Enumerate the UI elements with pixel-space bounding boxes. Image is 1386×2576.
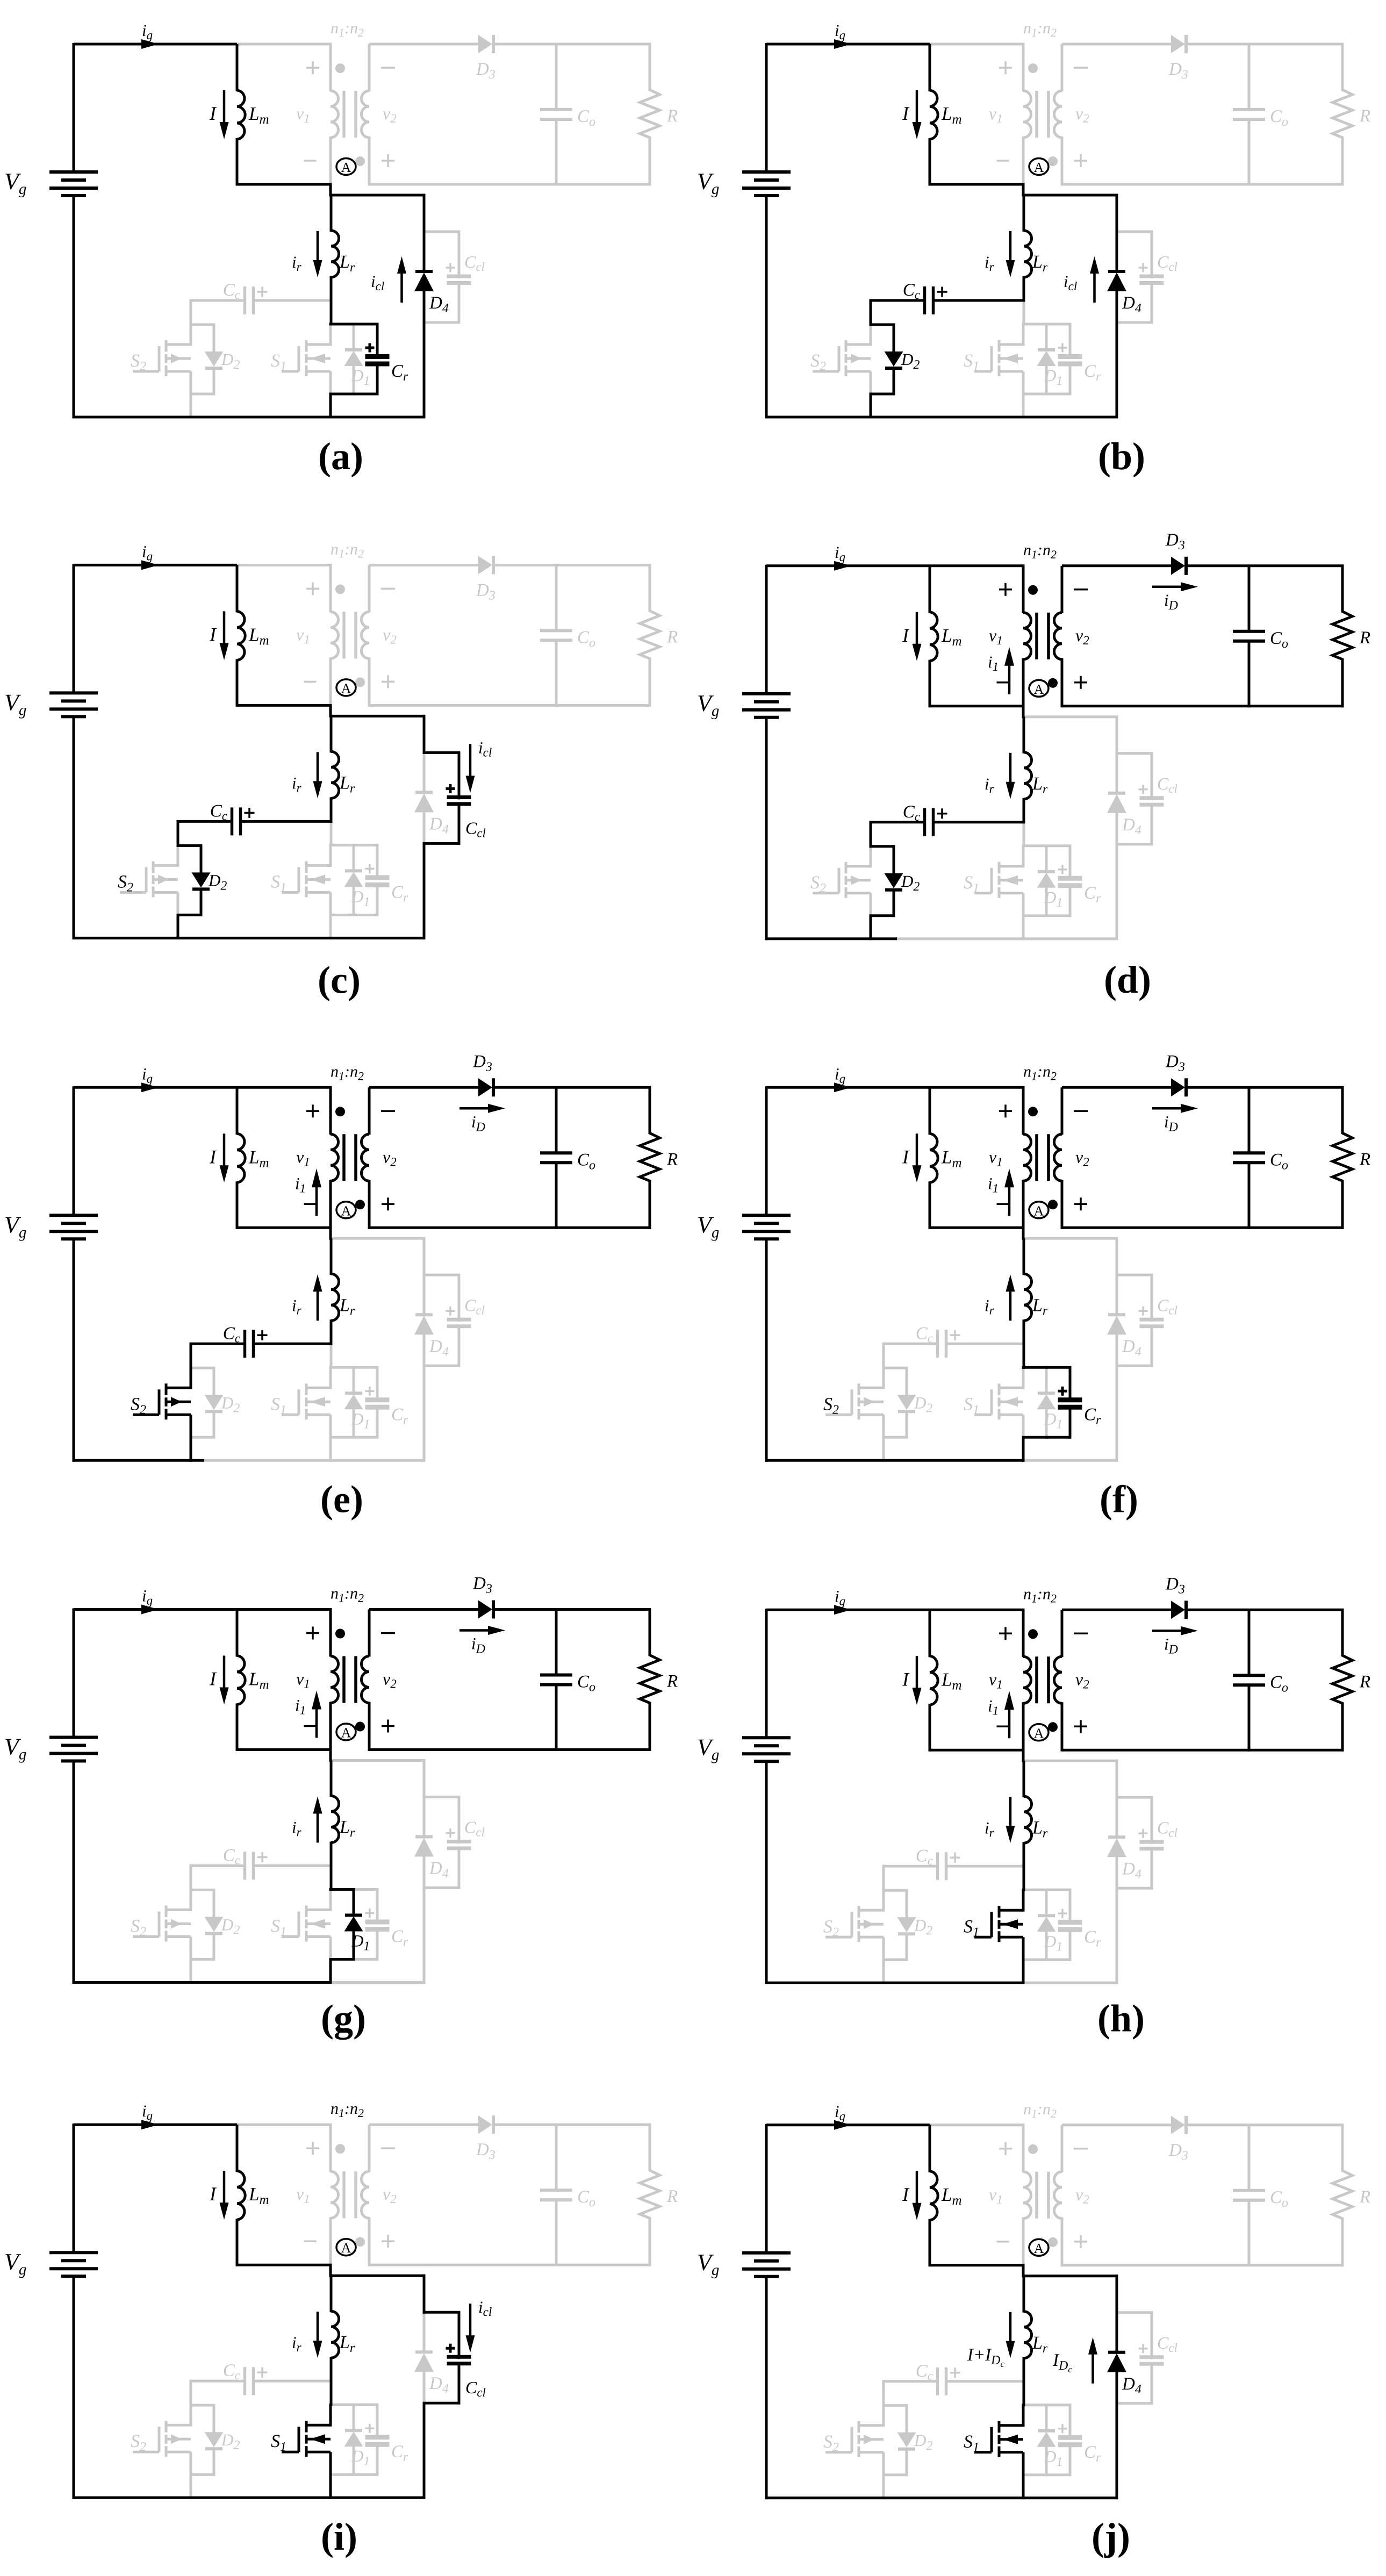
current arrow icl bbox=[400, 271, 403, 303]
svg-text:Lm: Lm bbox=[248, 1146, 269, 1170]
diode D3 bbox=[478, 1078, 492, 1096]
capacitor Cc wire left bbox=[871, 299, 925, 302]
capacitor Cr branch top bbox=[354, 844, 379, 846]
diode D4 wire below bbox=[1116, 1857, 1118, 1890]
wire secondary top bbox=[369, 2123, 478, 2126]
diode D4 wire below bbox=[423, 1857, 426, 1890]
label v1 plus bbox=[306, 67, 319, 69]
transistor S1 bbox=[306, 864, 331, 867]
label Cc plus bbox=[950, 1857, 960, 1859]
resistor R bbox=[1341, 2125, 1344, 2172]
svg-text:D2: D2 bbox=[914, 2431, 932, 2453]
wire Cc down to switch rail bbox=[190, 1343, 192, 1369]
label v1 minus bbox=[304, 2240, 317, 2242]
transistor S1 drain lead bbox=[329, 323, 332, 346]
label v2 minus bbox=[381, 67, 395, 69]
resistor R bbox=[1341, 1610, 1344, 1656]
capacitor Cc wire right bbox=[947, 1865, 1024, 1868]
diode D2 branch top bbox=[190, 1889, 216, 1891]
svg-text:Ccl: Ccl bbox=[1157, 1818, 1177, 1839]
wire D3 to load bbox=[493, 1608, 651, 1611]
svg-text:n1:n2: n1:n2 bbox=[331, 19, 364, 39]
capacitor Cc wire right bbox=[947, 2380, 1024, 2383]
node A marker bbox=[1029, 680, 1049, 697]
wire bottom rail bbox=[765, 937, 897, 940]
wire S2 source to rail bbox=[190, 1960, 192, 1984]
diode D4 bbox=[415, 1835, 433, 1839]
svg-text:v1: v1 bbox=[989, 1669, 1003, 1691]
svg-text:S2: S2 bbox=[131, 1917, 146, 1939]
svg-text:ig: ig bbox=[835, 21, 845, 42]
diode D1 branch bottom bbox=[1045, 888, 1048, 917]
current arrow I bbox=[916, 1656, 918, 1690]
capacitor Cr branch bottom bbox=[1069, 1407, 1072, 1439]
transistor S1 drain lead bbox=[1022, 323, 1025, 346]
current arrow iD bbox=[459, 1629, 490, 1632]
wire bottom rail bbox=[73, 2496, 426, 2499]
label Ccl plus bbox=[1139, 2348, 1148, 2350]
capacitor Ccl branch top bbox=[423, 1274, 461, 1276]
wire Lr to switch node bbox=[330, 2381, 333, 2406]
resistor R bbox=[649, 1087, 651, 1134]
svg-text:D1: D1 bbox=[351, 366, 370, 388]
wire top-left bbox=[74, 1086, 237, 1089]
resistor R bbox=[1341, 566, 1344, 613]
wire to D1 top bbox=[329, 323, 355, 326]
svg-text:ir: ir bbox=[985, 1296, 995, 1317]
diode D1 branch bottom bbox=[1045, 1409, 1048, 1439]
wire Lr to switch node bbox=[1023, 1344, 1025, 1369]
inductor Lr bbox=[1023, 717, 1025, 754]
wire top-left bbox=[74, 564, 237, 566]
wire Lm bottom to node A bbox=[930, 2264, 1025, 2266]
current arrow ir bbox=[317, 1289, 319, 1321]
capacitor Cc wire right bbox=[255, 1864, 331, 1867]
transistor S2 source lead bbox=[882, 1415, 885, 1439]
wire Cc down to switch rail bbox=[190, 1864, 192, 1891]
label Cc plus bbox=[950, 1334, 960, 1337]
wire Lm bottom to node A bbox=[237, 1748, 332, 1751]
capacitor Cc wire right bbox=[935, 821, 1024, 823]
svg-text:Vg: Vg bbox=[4, 689, 26, 719]
label Ccl plus bbox=[446, 267, 455, 269]
wire secondary top bbox=[1062, 564, 1171, 567]
wire top-left bbox=[766, 2123, 930, 2126]
diode D4 branch wire bottom bbox=[1116, 1366, 1118, 1462]
wire node A to clamp branch bbox=[1023, 715, 1118, 718]
wire Lr to switch node bbox=[1023, 822, 1025, 848]
diode D4 branch wire bottom bbox=[1116, 844, 1118, 941]
wire secondary bottom bbox=[1062, 705, 1344, 707]
svg-text:n1:n2: n1:n2 bbox=[331, 2100, 364, 2120]
wire secondary bottom bbox=[1062, 183, 1344, 186]
wire S1 source to rail bbox=[329, 1960, 332, 1984]
svg-text:D4: D4 bbox=[429, 2374, 449, 2396]
svg-text:A: A bbox=[341, 1725, 351, 1741]
transistor S2 drain lead bbox=[190, 325, 192, 346]
wire top-left bbox=[766, 1609, 930, 1611]
transformer primary winding v1 bbox=[1022, 1610, 1025, 1657]
label v1 plus bbox=[999, 589, 1012, 591]
diode D2 branch bottom bbox=[213, 2448, 216, 2476]
label Ccl plus bbox=[446, 1832, 455, 1834]
svg-text:v2: v2 bbox=[1075, 104, 1089, 125]
capacitor Ccl branch bottom bbox=[458, 2363, 461, 2405]
svg-text:v1: v1 bbox=[296, 2184, 310, 2206]
transformer core bbox=[1035, 2172, 1038, 2219]
transistor S2 source lead bbox=[190, 1415, 192, 1439]
label v1 plus bbox=[999, 1110, 1012, 1113]
svg-text:R: R bbox=[666, 2187, 678, 2206]
wire to D1 top bbox=[1022, 844, 1048, 847]
svg-text:Co: Co bbox=[1270, 1150, 1288, 1172]
capacitor Ccl bbox=[447, 2355, 471, 2359]
diode D1 bbox=[345, 1914, 362, 1917]
current arrow ig bbox=[834, 2120, 851, 2130]
diode D4 wire above bbox=[1116, 2313, 1118, 2353]
svg-text:S2: S2 bbox=[823, 2432, 839, 2455]
current arrow icl bbox=[469, 744, 472, 778]
transistor S2 bbox=[859, 1387, 884, 1389]
svg-text:v2: v2 bbox=[1075, 2185, 1089, 2206]
svg-text:v2: v2 bbox=[383, 2184, 397, 2206]
battery Vg bbox=[742, 692, 791, 695]
svg-text:A: A bbox=[1034, 681, 1044, 697]
inductor Lr bbox=[330, 716, 333, 752]
transistor S2 drain lead bbox=[870, 325, 872, 346]
wire to D1 bottom bbox=[1022, 914, 1048, 917]
wire left rail bottom bbox=[73, 2276, 75, 2499]
label v2 minus bbox=[1074, 1633, 1088, 1635]
svg-text:n1:n2: n1:n2 bbox=[1023, 1585, 1057, 1605]
label v1 plus bbox=[999, 1633, 1012, 1635]
wire node A to clamp branch bbox=[331, 194, 426, 197]
transistor S1 source lead bbox=[1022, 893, 1025, 917]
svg-text:Vg: Vg bbox=[697, 690, 719, 720]
wire Cc down to switch rail bbox=[882, 1343, 885, 1369]
wire node A to clamp branch bbox=[331, 2274, 426, 2277]
capacitor Ccl branch top bbox=[1116, 1796, 1153, 1799]
capacitor Ccl bbox=[1140, 796, 1164, 800]
svg-text:D2: D2 bbox=[221, 350, 240, 372]
wire bottom rail bbox=[765, 416, 1118, 419]
svg-text:Lm: Lm bbox=[248, 103, 269, 127]
svg-text:R: R bbox=[1359, 1150, 1370, 1169]
capacitor Cc bbox=[936, 1330, 939, 1358]
transistor S1 source lead bbox=[329, 2452, 332, 2476]
transistor S2 drain lead bbox=[870, 846, 872, 868]
svg-text:(i): (i) bbox=[321, 2515, 357, 2558]
capacitor Ccl bbox=[447, 1840, 471, 1843]
inductor Lr bbox=[1023, 2276, 1025, 2313]
wire top-mid to primary bbox=[930, 43, 1025, 46]
transistor S1 drain lead bbox=[1022, 2404, 1025, 2427]
wire Lm bottom to node A bbox=[237, 704, 332, 707]
wire node jog bbox=[1022, 706, 1025, 719]
wire D3 to load bbox=[493, 564, 651, 566]
current arrow iD bbox=[1152, 1630, 1183, 1632]
diode D4 branch wire bottom bbox=[1116, 2403, 1118, 2500]
diode D2 branch bottom bbox=[213, 1933, 216, 1961]
diode D1 branch top bbox=[1045, 324, 1048, 351]
transformer core bbox=[342, 1656, 346, 1703]
capacitor Cr branch bottom bbox=[1069, 2445, 1072, 2477]
inductor Lm bbox=[929, 1610, 931, 1657]
svg-text:I: I bbox=[209, 1146, 217, 1167]
wire to D1 top bbox=[1022, 1889, 1048, 1891]
current arrow i1 bbox=[1008, 1185, 1011, 1216]
svg-text:Cc: Cc bbox=[903, 281, 920, 302]
svg-text:S2: S2 bbox=[118, 872, 133, 894]
node A marker bbox=[336, 159, 356, 175]
svg-text:i1: i1 bbox=[988, 1174, 999, 1195]
diode D4 wire above bbox=[1116, 1797, 1118, 1838]
diode D1 branch top bbox=[1045, 1367, 1048, 1394]
capacitor Cr branch top bbox=[1046, 323, 1072, 326]
wire top-mid to primary bbox=[237, 564, 332, 566]
svg-text:ig: ig bbox=[835, 543, 845, 564]
resistor R bbox=[649, 565, 651, 612]
wire left rail top bbox=[73, 43, 75, 173]
svg-text:D1: D1 bbox=[1044, 888, 1062, 910]
label v1 minus bbox=[997, 681, 1009, 684]
node A marker bbox=[1029, 2239, 1049, 2256]
svg-text:v2: v2 bbox=[383, 1669, 397, 1691]
wire to D1 bottom bbox=[329, 393, 355, 396]
diode D4 bbox=[1108, 1835, 1125, 1839]
wire node jog bbox=[329, 705, 332, 717]
svg-text:(g): (g) bbox=[321, 1997, 366, 2040]
diode D2 branch top bbox=[190, 324, 216, 326]
svg-text:R: R bbox=[1359, 106, 1370, 126]
diode D2 branch bottom bbox=[893, 889, 895, 917]
wire to D1 bottom bbox=[1022, 1436, 1048, 1439]
diode D2 branch top bbox=[190, 2404, 216, 2407]
capacitor Cc wire right bbox=[242, 820, 331, 823]
capacitor Ccl bbox=[1140, 275, 1164, 278]
resistor R bbox=[1341, 44, 1344, 91]
wire D3 to load bbox=[1186, 2123, 1344, 2126]
diode D2 branch bottom bbox=[893, 368, 895, 396]
label Ccl plus bbox=[1139, 267, 1148, 269]
diode D2 bbox=[897, 1917, 916, 1932]
svg-text:iD: iD bbox=[471, 1634, 485, 1656]
svg-text:R: R bbox=[666, 1150, 678, 1169]
svg-text:Cr: Cr bbox=[391, 2442, 408, 2464]
svg-text:n1:n2: n1:n2 bbox=[331, 1063, 364, 1082]
current arrow I bbox=[223, 611, 226, 645]
resistor R bbox=[649, 2125, 651, 2171]
wire S2 source to rail bbox=[882, 1437, 885, 1462]
wire left rail top bbox=[765, 1609, 768, 1739]
diode D4 wire above bbox=[423, 1797, 426, 1838]
wire left rail top bbox=[73, 1609, 75, 1739]
capacitor Ccl branch top bbox=[423, 1796, 461, 1798]
transistor S2 source lead bbox=[190, 2452, 192, 2476]
wire left rail bottom bbox=[765, 1239, 768, 1462]
svg-text:S2: S2 bbox=[810, 351, 826, 374]
label v2 plus bbox=[382, 2240, 394, 2242]
battery Vg bbox=[742, 1736, 791, 1739]
wire bottom rail bbox=[73, 416, 426, 419]
wire left rail top bbox=[765, 565, 768, 695]
label Cc plus bbox=[257, 2371, 268, 2373]
label v2 minus bbox=[381, 1632, 395, 1634]
inductor Lm bbox=[236, 1087, 239, 1135]
wire left rail bottom bbox=[73, 1239, 75, 1462]
label v1 minus bbox=[997, 2241, 1009, 2243]
svg-text:D3: D3 bbox=[1168, 2141, 1188, 2163]
battery Vg bbox=[49, 2251, 98, 2254]
transistor S2 drain lead bbox=[190, 1890, 192, 1912]
current arrow I bbox=[223, 90, 226, 124]
current arrow ig bbox=[834, 1082, 851, 1092]
wire left rail top bbox=[765, 1086, 768, 1216]
svg-text:ir: ir bbox=[985, 253, 995, 274]
label Ccl plus bbox=[1139, 1833, 1148, 1835]
diode D4 wire above bbox=[423, 752, 426, 793]
wire left rail bottom bbox=[765, 196, 768, 419]
svg-text:D4: D4 bbox=[1122, 1337, 1141, 1359]
wire S2 source to rail bbox=[882, 1960, 885, 1984]
capacitor Cc bbox=[936, 1852, 939, 1880]
capacitor Ccl branch bottom bbox=[458, 1326, 461, 1367]
label v2 plus bbox=[382, 1725, 394, 1727]
label v1 minus bbox=[304, 1725, 317, 1727]
svg-text:D3: D3 bbox=[1165, 1574, 1185, 1596]
label v1 minus bbox=[304, 681, 317, 683]
label v2 minus bbox=[1074, 2148, 1088, 2150]
transistor S1 bbox=[999, 343, 1023, 346]
capacitor Cr branch top bbox=[354, 2403, 379, 2406]
wire S2 source to rail bbox=[870, 394, 872, 419]
capacitor Cr branch bottom bbox=[376, 364, 379, 396]
capacitor Ccl bbox=[1140, 2355, 1164, 2359]
wire Lr to switch node bbox=[330, 1344, 333, 1369]
diode D4 wire below bbox=[423, 812, 426, 845]
diode D4 wire below bbox=[1116, 291, 1118, 324]
current arrow i1 bbox=[315, 1185, 318, 1216]
battery Vg bbox=[49, 170, 98, 174]
node A marker bbox=[1029, 159, 1049, 175]
svg-text:(c): (c) bbox=[318, 958, 361, 1001]
svg-text:S2: S2 bbox=[131, 2431, 146, 2454]
capacitor Cc wire right bbox=[255, 1343, 331, 1345]
wire Cc down to switch rail bbox=[870, 299, 872, 326]
capacitor Cc wire left bbox=[191, 299, 246, 302]
wire S2 source to rail bbox=[177, 915, 179, 939]
capacitor Cc wire left bbox=[884, 1865, 938, 1868]
wire Lm bottom to node A bbox=[930, 1749, 1025, 1752]
svg-text:A: A bbox=[1034, 160, 1044, 175]
svg-text:Lr: Lr bbox=[339, 1295, 355, 1318]
wire top-mid to primary bbox=[930, 564, 1025, 567]
svg-text:Vg: Vg bbox=[4, 168, 26, 198]
svg-text:Lr: Lr bbox=[339, 252, 355, 275]
svg-text:Ccl: Ccl bbox=[464, 1818, 485, 1839]
capacitor Cc bbox=[243, 1852, 247, 1880]
wire Cc down to switch rail bbox=[882, 1865, 885, 1892]
secondary polarity dot bbox=[355, 1722, 365, 1732]
svg-text:I: I bbox=[902, 1146, 910, 1167]
wire node A to clamp branch bbox=[1023, 1760, 1118, 1762]
svg-text:S2: S2 bbox=[810, 873, 826, 895]
svg-text:ig: ig bbox=[835, 1587, 845, 1608]
svg-text:(a): (a) bbox=[318, 435, 363, 478]
diode D4 bbox=[1108, 792, 1125, 795]
wire Lm bottom to node A bbox=[930, 183, 1025, 186]
diode D1 bbox=[345, 869, 362, 872]
wire S1 source to rail bbox=[329, 394, 332, 419]
capacitor Cr bbox=[365, 1920, 390, 1925]
transistor S1 bbox=[999, 1909, 1023, 1912]
wire D3 to load bbox=[1186, 1086, 1344, 1089]
svg-text:Cr: Cr bbox=[391, 882, 408, 905]
label v1 minus bbox=[997, 160, 1009, 162]
transistor S2 drain lead bbox=[177, 845, 179, 867]
inductor Lr bbox=[330, 1761, 333, 1797]
transistor S2 drain lead bbox=[190, 2405, 192, 2427]
capacitor Ccl branch bottom bbox=[1151, 805, 1153, 846]
svg-text:A: A bbox=[1034, 1725, 1044, 1741]
wire bottom rail right (inactive) bbox=[1023, 1982, 1118, 1984]
capacitor Cr branch top bbox=[354, 1888, 379, 1891]
transformer secondary winding v2 bbox=[368, 44, 371, 91]
inductor Lr bbox=[1023, 195, 1025, 232]
wire Lm bottom to node A bbox=[237, 1226, 332, 1229]
svg-text:Lm: Lm bbox=[941, 103, 962, 127]
svg-text:R: R bbox=[1359, 2187, 1370, 2207]
diode D3 bbox=[478, 556, 492, 574]
diode D2 bbox=[897, 1395, 916, 1410]
diode D2 branch bottom bbox=[213, 1411, 216, 1439]
svg-text:D1: D1 bbox=[351, 1932, 370, 1954]
capacitor Co branch bbox=[1248, 1610, 1251, 1676]
svg-text:Cc: Cc bbox=[916, 2362, 933, 2383]
primary polarity dot bbox=[335, 2144, 345, 2154]
diode D4 branch wire bottom bbox=[423, 2403, 426, 2499]
svg-text:S2: S2 bbox=[131, 351, 146, 374]
svg-text:Lm: Lm bbox=[941, 1669, 962, 1692]
wire to D1 top bbox=[1022, 2403, 1048, 2406]
svg-text:D4: D4 bbox=[429, 814, 449, 836]
svg-text:Cc: Cc bbox=[903, 802, 920, 823]
diode D2 branch top bbox=[177, 844, 203, 847]
label Cr plus bbox=[1058, 1913, 1067, 1915]
svg-text:D1: D1 bbox=[1044, 2447, 1062, 2469]
svg-text:S1: S1 bbox=[271, 1394, 286, 1417]
svg-text:A: A bbox=[341, 2240, 351, 2256]
svg-text:Cc: Cc bbox=[916, 1324, 933, 1345]
wire secondary top bbox=[1062, 1609, 1171, 1611]
capacitor Ccl bbox=[447, 275, 471, 278]
transistor S1 bbox=[306, 1387, 331, 1389]
svg-text:n1:n2: n1:n2 bbox=[1023, 541, 1057, 561]
svg-text:I: I bbox=[209, 1668, 217, 1690]
secondary polarity dot bbox=[355, 677, 365, 687]
diode D2 branch top bbox=[882, 2404, 908, 2407]
diode D2 branch bottom bbox=[906, 1411, 908, 1439]
transistor S2 bbox=[166, 343, 191, 346]
label Cc plus bbox=[937, 291, 947, 293]
inductor Lr bbox=[1023, 1238, 1025, 1275]
wire top-mid to primary bbox=[237, 1086, 332, 1089]
svg-text:Lr: Lr bbox=[339, 1818, 355, 1840]
svg-text:D4: D4 bbox=[1122, 2374, 1141, 2396]
capacitor Cc wire left bbox=[884, 2380, 938, 2383]
capacitor Cc bbox=[243, 2367, 247, 2395]
svg-text:D4: D4 bbox=[1122, 293, 1141, 315]
